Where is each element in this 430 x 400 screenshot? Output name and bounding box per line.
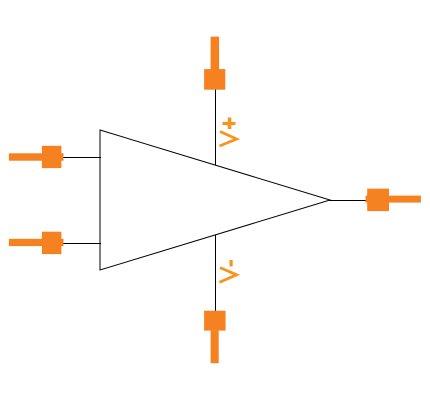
label V+ : letter V rotated (points right): [220, 132, 237, 147]
pin V- (bottom) stub lead: [211, 331, 219, 364]
pin IN- (left lower) pad square: [42, 232, 62, 254]
op-amp U1 triangle body: [100, 130, 330, 270]
label V- : minus sign (rotated to vertical bar): [230, 260, 233, 267]
wire IN+ (left upper pin to triangle left edge): [61, 157, 101, 159]
wire V+ stub (top power pin to triangle top edge): [215, 89, 217, 166]
pin OUT (right) pad square: [367, 189, 389, 212]
wire IN- (left lower pin to triangle left edge): [61, 243, 101, 245]
pin IN- (left lower) stub lead: [9, 239, 64, 246]
wire V- stub (triangle bottom edge to bottom power pin): [215, 235, 217, 313]
pin IN+ (left upper) stub lead: [9, 153, 64, 160]
label V- : letter V rotated (points right): [220, 268, 237, 283]
wire OUT (triangle apex to right pin): [329, 200, 368, 202]
pin IN+ (left upper) pad square: [42, 146, 62, 168]
pin OUT (right) stub lead: [366, 196, 421, 203]
pin V+ (top) pad square: [204, 69, 225, 90]
pin V+ (top) stub lead: [211, 37, 220, 71]
label V+ : plus sign (rotated text, orange stroke font): [223, 118, 236, 130]
pin V- (bottom) pad square: [204, 311, 226, 331]
